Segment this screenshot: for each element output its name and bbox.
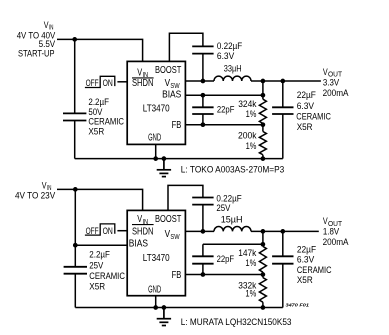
wire: ground rail (top) bbox=[75, 158, 283, 160]
node: VOUT feedback junction (bottom) bbox=[261, 229, 266, 234]
pin label VIN (U1) bbox=[137, 68, 148, 80]
svg-text:CERAMIC: CERAMIC bbox=[89, 271, 125, 282]
wire: inductor to VOUT (bottom) bbox=[251, 230, 319, 232]
wire: boost cap to VSW line (top) bbox=[202, 54, 204, 81]
wire: VSW pin to inductor (bottom) bbox=[185, 230, 214, 232]
wire: input cap to ground rail (top) bbox=[74, 121, 76, 159]
pin label SHDN with overbar (U1) bbox=[132, 78, 154, 89]
svg-text:1%: 1% bbox=[245, 258, 256, 269]
wire: ground rail (bottom) bbox=[75, 307, 282, 309]
node: BIAS / 22pF junction (top) bbox=[201, 93, 206, 98]
svg-text:L: TOKO A003AS-270M=P3: L: TOKO A003AS-270M=P3 bbox=[181, 165, 284, 176]
svg-text:1.8V: 1.8V bbox=[323, 227, 340, 238]
node: BIAS / divider junction (top) bbox=[261, 93, 266, 98]
svg-text:SW: SW bbox=[170, 232, 180, 241]
capacitor 22pF feed-forward (top) bbox=[192, 107, 213, 114]
wire: VOUT down to 324k (top) bbox=[262, 81, 264, 99]
inductor 15uH L2 (bottom) bbox=[214, 226, 251, 231]
svg-text:FB: FB bbox=[172, 270, 182, 281]
ground symbol (top) bbox=[157, 159, 171, 177]
wire: BOOST pin up and over to boost cap (bottom) bbox=[168, 185, 203, 210]
svg-text:3.3V: 3.3V bbox=[323, 77, 340, 88]
net label VIN (bottom circuit) bbox=[42, 180, 52, 192]
svg-text:OFF: OFF bbox=[86, 226, 99, 237]
node: 200k / ground rail junction (top) bbox=[261, 156, 266, 161]
wire: branch down to 22pF (bottom) bbox=[202, 244, 204, 256]
wire: BIAS line down to 22pF (top) bbox=[202, 95, 204, 107]
wire: 22pF to FB line (top) bbox=[202, 114, 204, 125]
svg-text:X5R: X5R bbox=[88, 127, 104, 138]
svg-text:22µF: 22µF bbox=[297, 90, 316, 101]
node: ground symbol junction (top) bbox=[162, 156, 167, 161]
svg-text:L: MURATA LQH32CN150K53: L: MURATA LQH32CN150K53 bbox=[181, 317, 292, 328]
svg-text:200mA: 200mA bbox=[323, 237, 349, 248]
svg-text:SHDN: SHDN bbox=[132, 78, 154, 89]
node: VOUT output cap junction (bottom) bbox=[280, 229, 285, 234]
wire: inductor to VOUT (top) bbox=[251, 80, 321, 82]
node: boost cap / VSW junction (bottom) bbox=[201, 229, 206, 234]
ground symbol (bottom) bbox=[157, 308, 171, 326]
svg-text:LT3470: LT3470 bbox=[143, 103, 170, 114]
node: divider / 22pF branch junction (bottom) bbox=[261, 242, 266, 247]
svg-text:FB: FB bbox=[172, 120, 182, 131]
pin label VIN (U2) bbox=[137, 214, 148, 226]
node: VOUT output cap junction (top) bbox=[280, 79, 285, 84]
svg-text:200mA: 200mA bbox=[323, 88, 349, 99]
node: GND pin / rail junction (top) bbox=[153, 156, 158, 161]
wire: divider top over to 22pF (bottom) bbox=[203, 243, 263, 245]
svg-text:GND: GND bbox=[148, 285, 161, 296]
capacitor 22uF 6.3V output (top) bbox=[272, 107, 293, 114]
wire: BOOST pin up and over to boost cap (top) bbox=[169, 33, 203, 61]
svg-text:ON: ON bbox=[103, 78, 113, 89]
svg-text:X5R: X5R bbox=[89, 282, 105, 293]
capacitor 2.2uF 50V input (top) bbox=[63, 113, 86, 120]
pin label VSW (U2) bbox=[165, 229, 181, 241]
wire: switch to SHDN pin (bottom) bbox=[117, 230, 127, 232]
capacitor 2.2uF 25V input (bottom) bbox=[64, 267, 87, 274]
resistor 200k 1% lower divider (top) bbox=[259, 132, 266, 155]
pin label SHDN with overbar (U2) bbox=[132, 225, 154, 238]
svg-text:6.3V: 6.3V bbox=[217, 51, 235, 62]
svg-text:BIAS: BIAS bbox=[129, 238, 148, 249]
op-amp/regulator IC LT3470 U1 (top) box bbox=[127, 61, 185, 144]
capacitor 0.22uF 25V boost (bottom) bbox=[192, 198, 213, 205]
node: FB / 22pF junction (top) bbox=[201, 122, 206, 127]
node: VOUT feedback junction (top) bbox=[261, 79, 266, 84]
svg-text:22pF: 22pF bbox=[217, 254, 235, 265]
wire: FB node down to 200k (top) bbox=[262, 125, 264, 132]
switch OFF/ON on SHDN (top) bbox=[85, 76, 115, 89]
resistor 147k 1% upper divider (bottom) bbox=[259, 246, 266, 272]
wire: switch to SHDN pin (top) bbox=[117, 81, 127, 83]
wire: 200k to ground rail (top) bbox=[262, 155, 264, 159]
svg-text:1%: 1% bbox=[246, 109, 257, 120]
node: FB / divider midpoint (bottom) bbox=[261, 272, 266, 277]
svg-text:GND: GND bbox=[148, 132, 161, 143]
wire: BIAS tap to U2 BIAS pin (bottom) bbox=[75, 244, 127, 246]
op-amp/regulator IC LT3470 U2 (bottom) box bbox=[127, 210, 185, 295]
pin label VSW (U1) bbox=[165, 78, 181, 90]
node: ground symbol junction (bottom) bbox=[162, 305, 167, 310]
svg-text:CERAMIC: CERAMIC bbox=[296, 112, 331, 123]
node: FB / 22pF junction (bottom) bbox=[201, 272, 206, 277]
svg-text:2.2µF: 2.2µF bbox=[89, 250, 110, 261]
svg-text:START-UP: START-UP bbox=[18, 48, 55, 59]
net label VOUT (bottom) bbox=[323, 216, 343, 228]
wire: VIN junction down to input cap (bottom) bbox=[74, 189, 76, 266]
wire: FB pin to divider midpoint (top) bbox=[185, 124, 263, 126]
capacitor 0.22uF 6.3V boost (top) bbox=[192, 46, 213, 53]
wire: VOUT down to 147k (bottom) bbox=[262, 231, 264, 246]
inductor 33uH L1 (top) bbox=[214, 76, 251, 81]
wire: boost cap to VSW line (bottom) bbox=[202, 205, 204, 232]
wire: U1 GND pin to ground rail (top) bbox=[155, 144, 157, 158]
wire: VOUT down to 22uF (top) bbox=[282, 81, 284, 107]
node: boost cap / VSW junction (top) bbox=[201, 79, 206, 84]
wire: VIN rail to U1 VIN pin (top) bbox=[57, 39, 143, 61]
wire: 22uF to ground rail (top) bbox=[282, 114, 284, 159]
capacitor 22uF 6.3V output (bottom) bbox=[272, 256, 293, 263]
svg-text:22pF: 22pF bbox=[217, 105, 235, 116]
svg-text:4V TO 23V: 4V TO 23V bbox=[15, 190, 56, 201]
svg-text:X5R: X5R bbox=[297, 275, 313, 286]
switch OFF/ON on SHDN (bottom) bbox=[85, 224, 115, 237]
wire: 22pF to FB line (bottom) bbox=[202, 264, 204, 275]
resistor 332k 1% lower divider (bottom) bbox=[259, 278, 266, 303]
svg-text:BOOST: BOOST bbox=[155, 214, 181, 225]
node: VIN junction (top) bbox=[72, 37, 77, 42]
svg-text:25V: 25V bbox=[216, 203, 231, 214]
resistor 324k 1% upper divider (top) bbox=[259, 99, 266, 123]
wire: 147k to FB node (bottom) bbox=[262, 272, 264, 274]
net label VIN (top circuit) bbox=[44, 20, 54, 32]
svg-text:SHDN: SHDN bbox=[132, 227, 154, 238]
svg-text:ON: ON bbox=[103, 226, 113, 237]
wire: VIN rail to U2 VIN pin (bottom) bbox=[57, 189, 143, 210]
svg-text:BOOST: BOOST bbox=[155, 65, 181, 76]
svg-text:1%: 1% bbox=[245, 289, 256, 300]
net label VOUT (top) bbox=[323, 67, 343, 79]
node: BIAS tap junction (bottom) bbox=[73, 243, 78, 248]
svg-text:15µH: 15µH bbox=[221, 214, 243, 225]
wire: BIAS pin to feedback divider (top) bbox=[185, 94, 263, 96]
svg-text:6.3V: 6.3V bbox=[297, 101, 315, 112]
node: VIN junction (bottom) bbox=[73, 187, 78, 192]
wire: 332k to ground rail (bottom) bbox=[262, 302, 264, 307]
svg-text:3470 F01: 3470 F01 bbox=[286, 302, 310, 308]
wire: FB node down to 332k (bottom) bbox=[262, 275, 264, 278]
svg-text:25V: 25V bbox=[89, 260, 104, 271]
wire: VSW pin to inductor (top) bbox=[185, 80, 214, 82]
capacitor 22pF feed-forward (bottom) bbox=[192, 256, 213, 263]
svg-text:X5R: X5R bbox=[297, 122, 313, 133]
svg-text:OFF: OFF bbox=[86, 78, 99, 89]
svg-text:LT3470: LT3470 bbox=[143, 253, 170, 264]
wire: 324k to FB node (top) bbox=[262, 123, 264, 124]
wire: VIN junction down to input cap (top) bbox=[74, 39, 76, 113]
wire: FB pin to divider midpoint (bottom) bbox=[185, 274, 263, 276]
node: GND pin / rail junction (bottom) bbox=[153, 305, 158, 310]
svg-text:1%: 1% bbox=[246, 141, 257, 152]
wire: input cap to ground rail (bottom) bbox=[74, 274, 76, 308]
wire: 22uF to ground rail (bottom) bbox=[282, 264, 284, 308]
node: FB / divider midpoint (top) bbox=[261, 122, 266, 127]
wire: VOUT down to 22uF (bottom) bbox=[282, 231, 284, 256]
node: 332k / ground rail junction (bottom) bbox=[261, 305, 266, 310]
svg-text:33µH: 33µH bbox=[224, 64, 242, 75]
svg-text:BIAS: BIAS bbox=[162, 90, 181, 101]
wire: U2 GND pin to ground rail (bottom) bbox=[155, 296, 157, 308]
